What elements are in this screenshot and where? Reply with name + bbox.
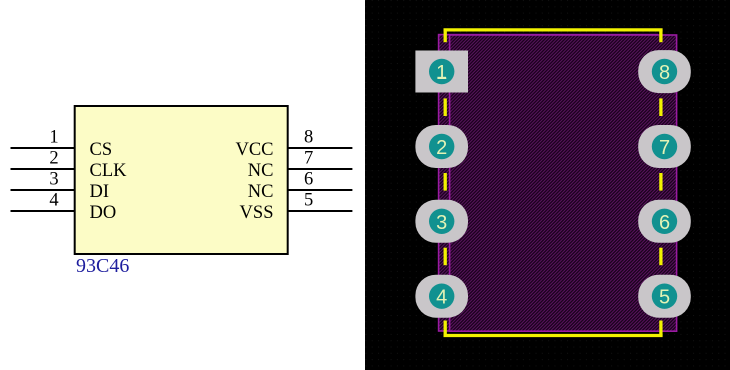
silkscreen right segment top stub bbox=[659, 30, 662, 42]
grid dots bbox=[365, 0, 730, 370]
silkscreen right dash 3-4 bbox=[659, 248, 662, 266]
svg-text:DI: DI bbox=[90, 182, 110, 202]
svg-text:5: 5 bbox=[659, 287, 670, 309]
pin 7 wire (NC) bbox=[287, 168, 352, 170]
svg-text:1: 1 bbox=[49, 128, 58, 148]
pin 6 wire (NC) bbox=[287, 189, 352, 191]
svg-text:7: 7 bbox=[659, 137, 670, 159]
pin 3 wire (DI) bbox=[11, 189, 75, 191]
svg-text:8: 8 bbox=[304, 128, 313, 148]
silkscreen left dash 3-4 bbox=[444, 248, 447, 266]
svg-text:4: 4 bbox=[436, 287, 447, 309]
silkscreen right dash 1-2 bbox=[659, 98, 662, 116]
svg-text:7: 7 bbox=[304, 149, 313, 169]
svg-text:93C46: 93C46 bbox=[76, 255, 129, 277]
svg-text:DO: DO bbox=[90, 203, 117, 223]
pin 4 wire (DO) bbox=[11, 210, 75, 212]
component body U1 (93C46) bbox=[75, 106, 288, 254]
pad 5 bbox=[638, 275, 691, 318]
pad 3 bbox=[415, 200, 468, 243]
svg-text:CLK: CLK bbox=[90, 161, 128, 181]
svg-text:8: 8 bbox=[659, 62, 670, 84]
silkscreen left bottom stub bbox=[444, 321, 447, 336]
pad 2 bbox=[415, 125, 468, 168]
pad 7 bbox=[638, 125, 691, 168]
pad 1 (square pin-1 pad) bbox=[415, 51, 468, 93]
silkscreen right bottom stub bbox=[659, 321, 662, 336]
silkscreen left segment top stub bbox=[444, 30, 447, 42]
silkscreen left dash 2-3 bbox=[444, 173, 447, 191]
black editor background bbox=[365, 0, 730, 370]
svg-text:6: 6 bbox=[659, 212, 670, 234]
pad 8 bbox=[638, 50, 691, 93]
svg-text:1: 1 bbox=[436, 62, 447, 84]
footprint body hatched rect A (left layer) bbox=[439, 35, 658, 331]
svg-text:2: 2 bbox=[49, 149, 58, 169]
footprint body hatched rect B (right layer, offset) bbox=[450, 35, 677, 331]
silkscreen bottom line bbox=[444, 334, 663, 337]
pad 6 bbox=[638, 200, 691, 243]
silkscreen top line bbox=[444, 28, 663, 31]
pin 2 wire (CLK) bbox=[11, 168, 75, 170]
svg-text:4: 4 bbox=[49, 191, 58, 211]
silkscreen right dash 2-3 bbox=[659, 173, 662, 191]
svg-text:CS: CS bbox=[90, 140, 113, 160]
svg-text:5: 5 bbox=[304, 191, 313, 211]
svg-text:3: 3 bbox=[49, 170, 58, 190]
pin 8 wire (VCC) bbox=[287, 147, 352, 149]
pin 5 wire (VSS) bbox=[287, 210, 352, 212]
silkscreen left dash 1-2 bbox=[444, 98, 447, 116]
svg-text:VCC: VCC bbox=[235, 140, 273, 160]
pin 1 wire (CS) bbox=[11, 147, 75, 149]
svg-text:NC: NC bbox=[248, 182, 274, 202]
silkscreen outline (yellow) bbox=[444, 30, 663, 336]
svg-text:VSS: VSS bbox=[240, 203, 274, 223]
svg-text:2: 2 bbox=[436, 137, 447, 159]
svg-text:NC: NC bbox=[248, 161, 274, 181]
pad 4 bbox=[415, 275, 468, 318]
svg-text:6: 6 bbox=[304, 170, 313, 190]
svg-text:3: 3 bbox=[436, 212, 447, 234]
